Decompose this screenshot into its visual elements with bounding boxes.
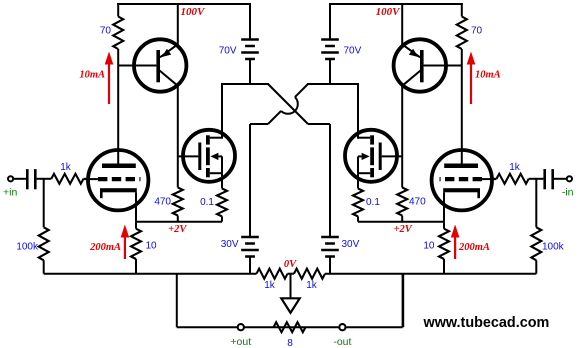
svg-text:+in: +in bbox=[3, 187, 17, 199]
svg-text:10: 10 bbox=[423, 241, 435, 252]
svg-text:1k: 1k bbox=[60, 162, 72, 173]
svg-text:-in: -in bbox=[562, 187, 574, 199]
svg-text:-out: -out bbox=[333, 336, 351, 348]
svg-text:1k: 1k bbox=[509, 162, 521, 173]
svg-text:100V: 100V bbox=[181, 6, 207, 18]
svg-text:470: 470 bbox=[154, 197, 171, 208]
svg-text:100k: 100k bbox=[16, 242, 39, 253]
svg-text:1k: 1k bbox=[306, 280, 318, 291]
svg-text:+out: +out bbox=[230, 336, 251, 348]
svg-text:30V: 30V bbox=[221, 239, 239, 250]
svg-text:70V: 70V bbox=[219, 46, 237, 57]
svg-text:200mA: 200mA bbox=[458, 242, 490, 253]
svg-text:8: 8 bbox=[287, 338, 293, 348]
svg-text:70: 70 bbox=[471, 26, 483, 37]
svg-text:100k: 100k bbox=[542, 242, 565, 253]
svg-text:0V: 0V bbox=[284, 259, 297, 270]
svg-text:70: 70 bbox=[100, 26, 112, 37]
svg-text:200mA: 200mA bbox=[89, 242, 121, 253]
svg-text:70V: 70V bbox=[344, 46, 362, 57]
svg-text:0.1: 0.1 bbox=[200, 197, 214, 208]
svg-text:10mA: 10mA bbox=[79, 70, 105, 81]
svg-text:10mA: 10mA bbox=[475, 70, 501, 81]
svg-text:10: 10 bbox=[146, 241, 158, 252]
svg-text:30V: 30V bbox=[342, 239, 360, 250]
svg-text:+2V: +2V bbox=[394, 224, 413, 235]
svg-text:470: 470 bbox=[409, 197, 426, 208]
svg-text:0.1: 0.1 bbox=[366, 197, 380, 208]
svg-text:www.tubecad.com: www.tubecad.com bbox=[423, 315, 550, 331]
svg-text:100V: 100V bbox=[376, 6, 402, 18]
svg-text:+2V: +2V bbox=[168, 224, 187, 235]
svg-text:1k: 1k bbox=[264, 280, 276, 291]
